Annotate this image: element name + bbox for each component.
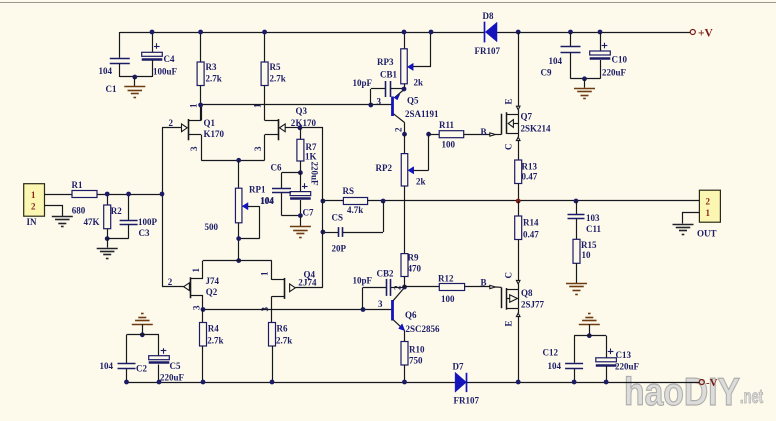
junction RP2 wiper top xyxy=(426,132,431,137)
svg-text:100: 100 xyxy=(441,294,455,304)
svg-text:D7: D7 xyxy=(453,362,464,372)
ground R2/C3 xyxy=(97,249,118,259)
capacitor C12 104 xyxy=(543,336,584,382)
wire output rail RS-left xyxy=(323,200,344,202)
wire Q2 gate xyxy=(162,286,184,288)
wire output rail xyxy=(368,200,700,202)
capacitor C13 220uF xyxy=(596,336,640,382)
wire R1 to input node xyxy=(97,194,162,196)
junction Q8 source rail xyxy=(516,380,521,385)
capacitor C11 103 xyxy=(568,201,602,239)
ground R15 xyxy=(566,284,587,295)
ground OUT xyxy=(673,225,694,235)
pin B marker Q8 xyxy=(481,278,502,289)
junction C12 rail xyxy=(572,380,577,385)
wire OUT pin1 to ground xyxy=(683,213,700,224)
svg-text:B: B xyxy=(481,127,487,137)
wire Q1 gate xyxy=(162,127,182,129)
svg-text:104: 104 xyxy=(260,196,274,206)
svg-text:C12: C12 xyxy=(543,348,559,358)
junction CS left xyxy=(321,230,326,235)
svg-text:C2: C2 xyxy=(136,364,147,374)
svg-text:RP1: RP1 xyxy=(249,185,266,195)
resistor R12 100 xyxy=(405,274,490,305)
resistor R1 xyxy=(72,180,98,198)
wire Q2 drain to Q6 base xyxy=(203,309,392,311)
svg-text:1: 1 xyxy=(189,103,199,108)
svg-text:3: 3 xyxy=(377,97,382,107)
svg-text:680: 680 xyxy=(72,206,86,216)
junction Q5 emitter RP3 xyxy=(402,87,407,92)
svg-text:220uF: 220uF xyxy=(160,373,185,383)
wire feedback node vertical xyxy=(300,128,323,288)
svg-text:R3: R3 xyxy=(206,62,217,72)
svg-text:IN: IN xyxy=(27,217,38,227)
svg-text:R15: R15 xyxy=(581,240,597,250)
svg-text:Q1: Q1 xyxy=(204,118,216,128)
svg-text:K170: K170 xyxy=(204,129,225,139)
svg-text:R12: R12 xyxy=(438,274,454,284)
junction R5 top rail xyxy=(262,30,267,35)
wire ground stem C6/C7 xyxy=(300,216,302,227)
svg-text:E: E xyxy=(504,98,514,104)
junction RS/CS right xyxy=(381,199,386,204)
svg-text:R10: R10 xyxy=(409,345,425,355)
resistor R4 xyxy=(200,310,224,383)
junction C13 rail xyxy=(604,380,609,385)
ground C9/C10 xyxy=(574,89,595,99)
wire Q3 gate xyxy=(285,127,300,129)
resistor R7 1K xyxy=(297,128,317,173)
wire C9-C10 bottom xyxy=(571,78,601,80)
capacitor C5 220uF xyxy=(149,335,185,383)
junction CB1 tap xyxy=(368,103,373,108)
svg-text:47K: 47K xyxy=(84,217,100,227)
resistor R9 470 xyxy=(401,253,422,288)
junction Q5 collector xyxy=(402,132,407,137)
svg-text:E: E xyxy=(504,320,514,326)
svg-text:C10: C10 xyxy=(612,55,628,65)
junction R7 bottom xyxy=(298,170,303,175)
svg-text:FR107: FR107 xyxy=(454,396,480,406)
capacitor C6 220uF xyxy=(290,162,319,216)
potentiometer RP3 xyxy=(377,32,431,89)
svg-text:R4: R4 xyxy=(208,324,219,334)
junction C10 top rail xyxy=(598,30,603,35)
junction C2 rail xyxy=(124,380,129,385)
svg-text:Q6: Q6 xyxy=(405,310,417,320)
svg-text:haoDIY: haoDIY xyxy=(624,371,740,414)
wire IN pin1 to R1 xyxy=(45,194,73,196)
svg-text:R9: R9 xyxy=(408,253,419,263)
svg-text:C: C xyxy=(504,144,514,151)
svg-text:4.7k: 4.7k xyxy=(347,205,363,215)
svg-text:2SC2856: 2SC2856 xyxy=(406,324,441,334)
svg-text:C13: C13 xyxy=(616,350,632,360)
svg-text:R6: R6 xyxy=(277,324,288,334)
junction R3 top rail xyxy=(198,30,203,35)
svg-text:FR107: FR107 xyxy=(475,46,501,56)
pin B marker Q7 xyxy=(481,127,502,137)
wire IN pin2 xyxy=(45,206,63,217)
wire ground stem C9/C10 xyxy=(584,79,586,88)
wire Q1/Q3 sources line xyxy=(201,160,264,162)
potentiometer RP2 xyxy=(376,134,429,253)
svg-text:2: 2 xyxy=(169,118,174,128)
ground IN pin2 xyxy=(52,217,73,227)
junction C12/C13 top xyxy=(587,333,592,338)
junction RP1 top xyxy=(236,158,241,163)
svg-text:2: 2 xyxy=(168,277,173,287)
svg-text:J74: J74 xyxy=(303,278,317,288)
svg-text:.net: .net xyxy=(740,387,763,408)
terminal +V xyxy=(690,28,713,40)
svg-text:3: 3 xyxy=(378,299,383,309)
svg-text:2.7k: 2.7k xyxy=(276,336,292,346)
diode D7 FR107 xyxy=(453,362,480,406)
svg-text:100P: 100P xyxy=(138,217,158,227)
svg-text:100: 100 xyxy=(442,140,456,150)
svg-text:C4: C4 xyxy=(164,54,175,64)
svg-text:2.7k: 2.7k xyxy=(207,336,223,346)
svg-text:C6: C6 xyxy=(271,163,282,173)
svg-text:10pF: 10pF xyxy=(353,78,373,88)
svg-text:RS: RS xyxy=(343,186,355,196)
resistor R10 750 xyxy=(401,342,425,383)
junction Q1 drain xyxy=(198,103,203,108)
transistor Q6 2SC2856 NPN xyxy=(378,285,440,342)
transistor Q2 J74 JFET xyxy=(168,261,220,310)
wire -V rail left xyxy=(127,382,456,384)
svg-text:R13: R13 xyxy=(522,162,538,172)
svg-text:10pF: 10pF xyxy=(353,276,373,286)
junction R4 rail xyxy=(201,380,206,385)
wire -V rail right xyxy=(467,382,699,384)
wire ground stem C12/C13 xyxy=(589,324,591,336)
svg-text:Q8: Q8 xyxy=(521,288,533,298)
resistor R15 10 xyxy=(573,239,597,283)
resistor RS 4.7k xyxy=(343,186,368,215)
wire C2-C5 top xyxy=(127,334,160,336)
resistor R14 0.47 xyxy=(515,201,540,280)
svg-text:2k: 2k xyxy=(416,177,426,187)
svg-text:OUT: OUT xyxy=(697,229,717,239)
svg-text:103: 103 xyxy=(586,213,600,223)
resistor R11 xyxy=(429,120,490,150)
capacitor C7 104 xyxy=(260,163,314,218)
svg-text:1: 1 xyxy=(191,268,201,273)
svg-text:B: B xyxy=(481,278,487,288)
capacitor CS 20P xyxy=(323,201,384,254)
watermark haoDIY.net xyxy=(624,371,763,414)
junction R2 top xyxy=(105,192,110,197)
diode D8 FR107 xyxy=(475,11,501,56)
wire Q4 gate xyxy=(295,287,323,289)
svg-text:C: C xyxy=(504,272,514,279)
svg-text:100uF: 100uF xyxy=(153,67,178,77)
top border line xyxy=(0,2,776,4)
svg-text:RP3: RP3 xyxy=(377,57,394,67)
svg-text:0.47: 0.47 xyxy=(522,172,538,182)
junction R6 rail xyxy=(270,380,275,385)
transistor Q3 K170 JFET xyxy=(253,103,317,160)
junction RP1 wiper bottom xyxy=(236,236,241,241)
svg-text:2.7k: 2.7k xyxy=(206,74,222,84)
svg-text:0.47: 0.47 xyxy=(523,230,539,240)
junction input node xyxy=(160,192,165,197)
ground C1 xyxy=(124,87,145,98)
junction C5 rail xyxy=(157,380,162,385)
svg-text:1: 1 xyxy=(259,271,269,276)
svg-text:2: 2 xyxy=(394,127,404,132)
transistor Q4 J74 JFET xyxy=(259,261,317,323)
ground C12/C13 xyxy=(579,314,600,325)
svg-text:+V: +V xyxy=(698,28,714,40)
capacitor C4 xyxy=(142,32,178,77)
junction Q2 drain R4 xyxy=(201,307,206,312)
wire Q2/Q4 sources line xyxy=(203,260,272,262)
svg-text:1: 1 xyxy=(253,103,263,108)
resistor R2 xyxy=(84,194,123,239)
resistor R13 xyxy=(515,160,538,201)
junction Q7 drain rail xyxy=(516,30,521,35)
connector IN xyxy=(24,184,45,227)
svg-text:R2: R2 xyxy=(111,206,122,216)
svg-text:C7: C7 xyxy=(303,208,314,218)
svg-text:R14: R14 xyxy=(523,218,539,228)
junction CB2 tap xyxy=(361,307,366,312)
potentiometer RP1 xyxy=(205,160,275,260)
svg-text:CB1: CB1 xyxy=(380,70,398,80)
capacitor C2 104 xyxy=(100,335,148,382)
junction C6 bottom xyxy=(298,213,303,218)
ground C2/C5 xyxy=(132,314,153,325)
svg-text:Q2: Q2 xyxy=(206,287,218,297)
svg-text:C11: C11 xyxy=(586,224,602,234)
resistor R5 xyxy=(261,32,286,120)
svg-text:C3: C3 xyxy=(139,228,150,238)
svg-text:C5: C5 xyxy=(170,361,181,371)
junction R10 rail xyxy=(402,380,407,385)
wire C12-C13 top xyxy=(574,335,606,337)
junction C1/C4 ground xyxy=(132,75,137,80)
junction C9 top rail xyxy=(568,30,573,35)
capacitor C10 xyxy=(590,32,628,79)
junction Q6 collector xyxy=(402,285,407,290)
svg-text:CB2: CB2 xyxy=(377,269,395,279)
svg-text:R11: R11 xyxy=(439,120,455,130)
wire ground stem C2/C5 xyxy=(142,324,144,335)
junction Q3 gate / R7 xyxy=(298,125,303,130)
junction RP1 lower line xyxy=(236,258,241,263)
wire +V rail left segment xyxy=(120,32,485,34)
connector OUT xyxy=(697,190,720,238)
junction C4 top rail xyxy=(150,30,155,35)
capacitor C1 xyxy=(99,32,130,94)
svg-text:-V: -V xyxy=(706,377,718,389)
transistor Q5 2SA1191 PNP xyxy=(393,90,440,135)
svg-text:1K: 1K xyxy=(305,152,317,162)
svg-text:104: 104 xyxy=(99,66,113,76)
svg-text:20P: 20P xyxy=(332,244,347,254)
svg-text:Q7: Q7 xyxy=(521,112,533,122)
wire Q1 drain to Q5 base xyxy=(201,104,392,106)
svg-text:RP2: RP2 xyxy=(376,163,393,173)
svg-text:500: 500 xyxy=(205,222,219,232)
wire input node vertical xyxy=(162,128,164,287)
wire ground stem C1 xyxy=(134,77,136,86)
ground C6/C7 xyxy=(290,227,311,238)
svg-text:2SK214: 2SK214 xyxy=(521,124,552,134)
svg-text:Q3: Q3 xyxy=(296,106,308,116)
wire Q7 drain from rail xyxy=(518,32,520,106)
svg-text:C9: C9 xyxy=(541,68,552,78)
svg-text:2: 2 xyxy=(706,197,711,207)
junction RP3 wiper rail xyxy=(429,30,434,35)
svg-text:104: 104 xyxy=(549,56,563,66)
svg-text:3: 3 xyxy=(192,305,202,310)
svg-text:3: 3 xyxy=(189,146,199,151)
svg-text:1: 1 xyxy=(31,190,36,200)
wire ground stem R2 xyxy=(107,239,109,248)
capacitor CB1 10pF xyxy=(353,70,405,107)
svg-text:C1: C1 xyxy=(106,84,117,94)
junction C3 top xyxy=(126,192,131,197)
svg-text:104: 104 xyxy=(100,361,114,371)
svg-text:220uF: 220uF xyxy=(310,162,320,187)
wire +V rail right segment xyxy=(497,32,691,34)
transistor Q8 2SJ77 MOSFET xyxy=(502,272,545,382)
svg-text:R1: R1 xyxy=(72,180,83,190)
svg-text:104: 104 xyxy=(548,361,562,371)
svg-text:CS: CS xyxy=(332,213,344,223)
svg-text:470: 470 xyxy=(408,264,422,274)
junction C11 tap xyxy=(574,199,579,204)
capacitor CB2 10pF xyxy=(353,269,405,310)
terminal -V xyxy=(699,377,717,389)
svg-text:1: 1 xyxy=(706,208,711,218)
svg-text:R7: R7 xyxy=(306,142,317,152)
junction C9/C10 ground xyxy=(582,76,587,81)
capacitor C3 xyxy=(107,194,157,239)
transistor Q1 K170 JFET xyxy=(169,103,225,160)
svg-text:3: 3 xyxy=(253,146,263,151)
junction feedback RS left xyxy=(321,199,326,204)
svg-text:Q5: Q5 xyxy=(407,96,419,106)
junction R2 bottom xyxy=(105,236,110,241)
svg-text:2.7k: 2.7k xyxy=(270,74,286,84)
svg-text:2k: 2k xyxy=(414,78,424,88)
transistor Q7 2SK214 MOSFET xyxy=(502,98,552,160)
svg-text:2: 2 xyxy=(31,201,36,211)
resistor R6 xyxy=(269,323,293,383)
svg-text:2SA1191: 2SA1191 xyxy=(405,109,439,119)
svg-text:750: 750 xyxy=(409,356,423,366)
capacitor C9 xyxy=(541,32,581,79)
svg-text:2SJ77: 2SJ77 xyxy=(521,300,545,310)
junction R13/R14 output xyxy=(516,199,521,204)
junction C2/C5 top xyxy=(140,332,145,337)
svg-text:D8: D8 xyxy=(483,11,494,21)
svg-text:220uF: 220uF xyxy=(602,68,627,78)
svg-text:J74: J74 xyxy=(206,276,220,286)
junction RP3 top rail xyxy=(402,30,407,35)
wire C1-C4 bottom xyxy=(120,76,152,78)
svg-text:10: 10 xyxy=(582,250,592,260)
svg-text:R5: R5 xyxy=(270,62,281,72)
svg-text:220uF: 220uF xyxy=(615,362,640,372)
resistor R3 xyxy=(197,32,222,120)
